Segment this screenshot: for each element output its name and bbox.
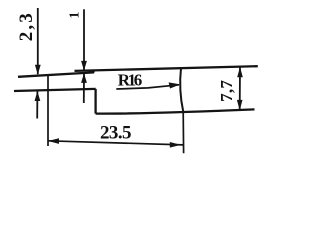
bottom edge of main body (line D) — [96, 109, 255, 113]
arrowhead R16 leader pointing right — [169, 82, 181, 88]
step vertical (1mm step) — [93, 70, 95, 73]
left extension line for 23.5 — [47, 75, 49, 146]
bottom edge of thin tongue (line B) — [14, 89, 96, 91]
svg-text:R16: R16 — [118, 71, 143, 90]
arrowhead 23.5 pointing right — [170, 142, 181, 148]
svg-text:1: 1 — [68, 12, 83, 19]
svg-text:23.5: 23.5 — [100, 123, 132, 144]
arrowhead 7,7 pointing down — [237, 100, 243, 111]
svg-text:7,7: 7,7 — [217, 80, 236, 102]
arrowhead 23.5 pointing left — [48, 138, 59, 144]
arrowhead 2,3 pointing down — [35, 65, 41, 75]
top edge of thin tongue (line A) — [18, 72, 94, 76]
dim 2,3 upper dimension line — [37, 8, 39, 74]
arrowhead 2,3 pointing up — [35, 91, 41, 101]
dim 1 upper dimension line — [83, 9, 85, 70]
right extension line for 23.5 — [182, 111, 184, 153]
svg-text:2,3: 2,3 — [16, 13, 37, 41]
arrowhead 1 pointing up — [81, 73, 87, 83]
R16 leader line — [116, 85, 179, 89]
dim 7,7 dimension line — [239, 67, 241, 110]
top edge of main body (line C) with left extension — [75, 66, 258, 71]
arrowhead 7,7 pointing up — [237, 67, 243, 78]
dim 23.5 dimension line — [48, 141, 183, 145]
bottom step vertical at x=95.6 — [94, 89, 96, 114]
R16 arc — [180, 68, 183, 111]
dim 1 lower dimension line tail — [83, 73, 85, 103]
dim 2,3 lower dimension line tail — [36, 91, 38, 118]
arrowhead 1 pointing down — [81, 61, 87, 71]
